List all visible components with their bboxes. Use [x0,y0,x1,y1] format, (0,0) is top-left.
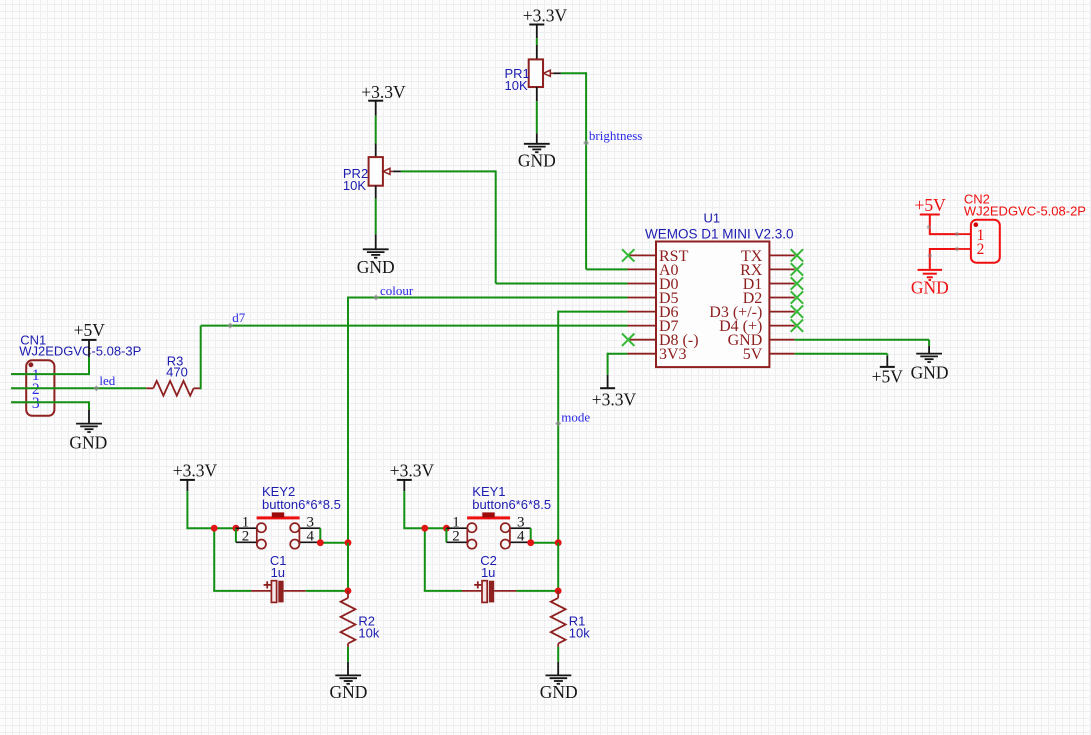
wire to capacitor [424,528,462,591]
pushbutton KEY2 [236,484,341,549]
net label brightness [583,128,642,146]
wire [403,491,447,528]
wire brightness from PR1 wiper [561,72,628,269]
wire [347,647,349,662]
wire [375,116,377,144]
ground GND (R1) [540,662,578,702]
capacitor C2 1u [462,553,517,602]
svg-text:+3.3V: +3.3V [592,390,637,410]
svg-text:WEMOS D1 MINI V2.3.0: WEMOS D1 MINI V2.3.0 [645,226,794,241]
svg-text:GND: GND [330,682,368,702]
wire [536,38,538,45]
wire CN2 pin2 to GND (red) [930,248,956,269]
svg-text:2: 2 [977,241,985,258]
svg-text:10k: 10k [358,626,379,641]
svg-text:+3.3V: +3.3V [523,6,568,26]
no-connect flags U1 [622,249,803,346]
svg-text:4: 4 [517,529,525,545]
power +5V (U1) [872,356,904,387]
svg-text:GND: GND [69,432,107,452]
power +3.3V (PR2 top) [361,82,406,116]
resistor R3 470 [146,354,201,396]
capacitor C1 1u [251,553,306,602]
svg-text:led: led [99,373,115,388]
wire d7 net R3 to D7 [201,326,628,390]
svg-text:10k: 10k [569,626,590,641]
wire CN2 pin1 to +5V (red) [930,216,956,236]
net label colour [373,283,414,301]
wire [445,528,447,542]
wire [306,543,348,591]
svg-text:2: 2 [242,529,250,545]
svg-text:+5V: +5V [914,195,946,215]
svg-text:GND: GND [911,363,949,383]
net label led [93,373,115,391]
svg-text:d7: d7 [232,310,246,325]
wire CN1 pin3 to GND [11,401,89,409]
wire [235,528,237,542]
power +3.3V (PR1 top) [523,6,568,39]
potentiometer PR2 [343,143,401,198]
svg-text:470: 470 [166,365,188,380]
power +5V (CN2, red) [914,195,946,215]
power +3.3V (KEY2) [173,461,218,492]
svg-text:+5V: +5V [872,366,904,386]
wire [516,543,558,591]
potentiometer PR1 [505,45,561,101]
svg-text:1u: 1u [481,565,495,580]
svg-text:3V3: 3V3 [659,346,687,363]
IC U1 WEMOS D1 MINI V2.3.0 [628,210,795,367]
wire U1 3V3 pin [608,353,628,375]
wire mode net [558,311,627,543]
svg-text:+3.3V: +3.3V [173,461,218,481]
svg-text:+5V: +5V [74,320,106,340]
resistor R2 10k [341,591,380,647]
svg-text:5V: 5V [743,346,763,363]
pushbutton KEY1 [446,484,551,549]
wire colour-pot to D0 [401,170,628,283]
svg-text:10K: 10K [343,178,366,193]
svg-text:+3.3V: +3.3V [390,461,435,481]
junction [443,525,450,532]
wire to capacitor [213,528,251,591]
power +3.3V (U1 3V3) [592,375,637,410]
wire colour net [348,297,628,543]
junction [345,588,352,595]
wire U1 5V pin [795,354,888,356]
svg-text:button6*6*8.5: button6*6*8.5 [262,497,341,512]
ground GND (PR2) [357,234,395,277]
svg-text:1u: 1u [271,565,285,580]
junction [345,539,352,546]
wire [186,491,237,528]
wire CN1 pin1 to +5V [11,357,89,375]
svg-text:4: 4 [307,529,315,545]
power +5V (CN1) [74,320,106,357]
net label mode [555,410,590,427]
wire button output [320,528,348,543]
svg-text:GND: GND [911,277,949,297]
svg-text:GND: GND [357,257,395,277]
svg-text:2: 2 [452,529,460,545]
junction [527,539,534,546]
junction [555,539,562,546]
svg-text:button6*6*8.5: button6*6*8.5 [472,497,551,512]
svg-text:WJ2EDGVC-5.08-2P: WJ2EDGVC-5.08-2P [964,204,1086,219]
junction [211,525,218,532]
svg-text:WJ2EDGVC-5.08-3P: WJ2EDGVC-5.08-3P [19,343,141,358]
svg-text:GND: GND [518,150,556,170]
power +3.3V (KEY1) [390,461,435,492]
connector CN2 [956,191,1086,262]
wire U1 GND pin [795,340,929,346]
junction [421,525,428,532]
svg-text:10K: 10K [505,78,528,93]
wire led net CN1 pin2 to R3 [11,387,146,389]
resistor R1 10k [551,591,590,647]
svg-text:colour: colour [380,283,414,298]
ground GND (PR1) [518,133,556,170]
junction [233,525,240,532]
svg-text:mode: mode [561,410,590,425]
wire [557,647,559,662]
junction [555,588,562,595]
svg-text:U1: U1 [703,210,720,225]
ground GND (U1) [911,346,949,383]
svg-text:+3.3V: +3.3V [361,82,406,102]
svg-text:GND: GND [540,682,578,702]
net label d7 [227,310,246,328]
wire-end markers (grey) [927,225,959,258]
ground GND (R2) [330,662,368,702]
connector CN1 [11,332,141,416]
svg-text:3: 3 [32,395,40,412]
ground GND (CN1) [69,410,107,453]
ground GND (CN2, red) [911,270,949,297]
wire [536,101,538,133]
junction [317,539,324,546]
wire [375,199,377,235]
wire button output [531,528,559,543]
svg-text:brightness: brightness [589,128,642,143]
